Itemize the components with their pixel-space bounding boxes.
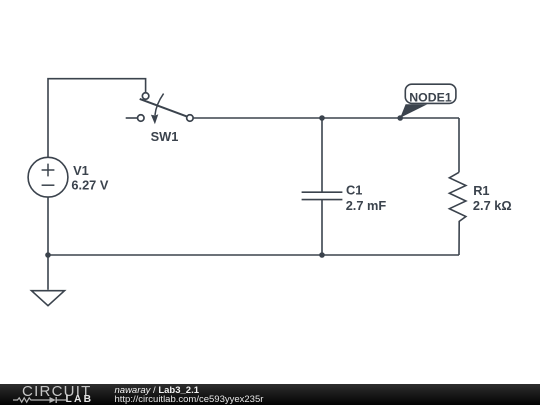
- svg-text:6.27 V: 6.27 V: [71, 178, 108, 193]
- NODE1 callout tail: [400, 104, 427, 117]
- footer url text: [115, 394, 264, 405]
- wire from top-right corner down to R1: [458, 118, 460, 172]
- junction dot at C1 top node: [319, 115, 325, 121]
- svg-text:V1: V1: [73, 163, 89, 178]
- wire from junction down to ground symbol: [47, 255, 49, 290]
- wire from switch right terminal to top-right corner: [193, 117, 459, 119]
- R1 value label: [473, 183, 512, 213]
- svg-text:R1: R1: [473, 183, 489, 198]
- voltage source V1: [28, 157, 68, 197]
- wire from V1 top up and right to switch SW1: [48, 79, 146, 158]
- junction dot at V1/ground node: [45, 252, 51, 258]
- bottom wire from ground junction to R1 bottom: [48, 254, 459, 256]
- resistor R1: [449, 172, 466, 255]
- capacitor C1: [302, 118, 343, 255]
- NODE1 callout box: [405, 84, 456, 103]
- CircuitLab logo squiggle with diode: [13, 396, 66, 404]
- CircuitLab logo wordmark CIRCUIT: [22, 383, 92, 400]
- svg-text:2.7 mF: 2.7 mF: [346, 198, 387, 213]
- svg-text:C1: C1: [346, 182, 362, 197]
- ground: [32, 291, 65, 306]
- footer bar: [0, 384, 540, 405]
- switch SW1: [126, 93, 193, 124]
- svg-text:SW1: SW1: [151, 129, 179, 144]
- C1 value label: [346, 182, 387, 213]
- junction dot at C1 bottom node: [319, 252, 325, 258]
- svg-text:NODE1: NODE1: [409, 90, 452, 104]
- footer title text: [115, 385, 200, 396]
- node dot NODE1: [397, 115, 403, 121]
- svg-text:2.7 kΩ: 2.7 kΩ: [473, 198, 512, 213]
- wire from V1 bottom to ground junction: [47, 197, 49, 255]
- V1 value label: [71, 163, 108, 193]
